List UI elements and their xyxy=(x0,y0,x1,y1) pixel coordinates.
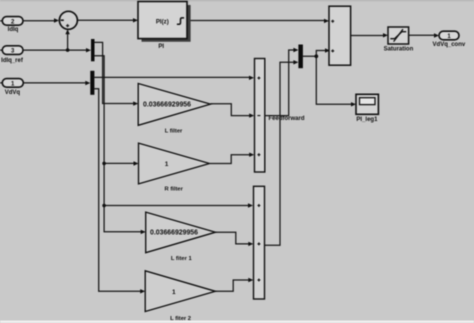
svg-text:Saturation: Saturation xyxy=(384,47,414,53)
svg-text:IdIq: IdIq xyxy=(8,27,19,33)
svg-text:1: 1 xyxy=(165,161,169,168)
svg-text:PI: PI xyxy=(158,44,164,50)
svg-text:0.03666929956: 0.03666929956 xyxy=(150,230,198,237)
svg-text:VdVq: VdVq xyxy=(5,90,21,96)
svg-text:L filter: L filter xyxy=(165,128,183,134)
svg-text:IdIq_ref: IdIq_ref xyxy=(1,58,24,64)
svg-text:PI_leg1: PI_leg1 xyxy=(356,117,378,123)
svg-text:0.03666929956: 0.03666929956 xyxy=(143,101,191,108)
svg-text:PI(z): PI(z) xyxy=(156,18,169,25)
svg-text:Feedforward: Feedforward xyxy=(268,116,304,122)
svg-text:1: 1 xyxy=(172,289,176,296)
svg-text:R filter: R filter xyxy=(165,186,184,192)
svg-text:VdVq_conv: VdVq_conv xyxy=(433,42,466,48)
svg-text:L fiter 2: L fiter 2 xyxy=(170,316,191,322)
svg-text:L fiter 1: L fiter 1 xyxy=(171,256,193,262)
